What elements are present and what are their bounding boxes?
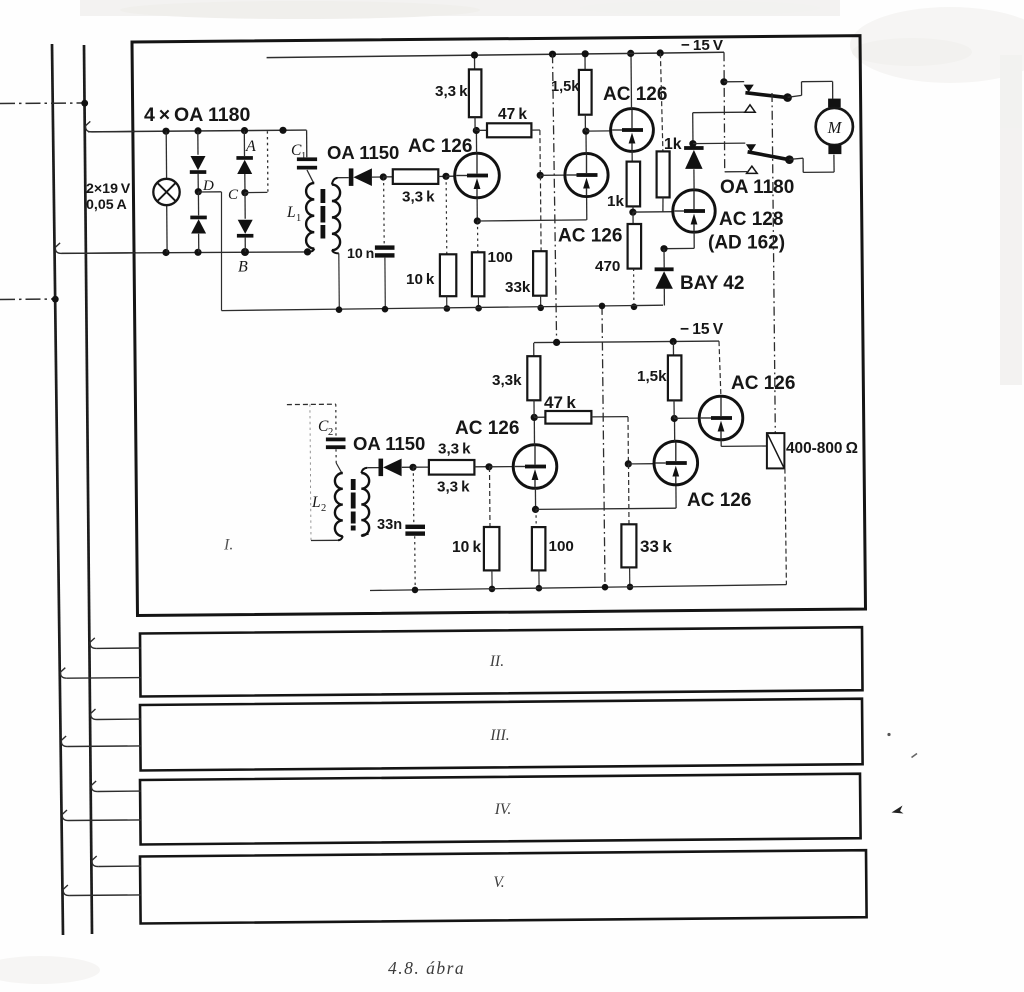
wire switch 1 to motor xyxy=(788,95,802,97)
node dot B-rail lamp xyxy=(162,249,169,256)
svg-text:AC 126: AC 126 xyxy=(731,373,795,394)
node dot T4 collector / 3,3k / 47k xyxy=(531,414,538,421)
wire hook from bus 1 to bridge B-rail xyxy=(55,243,61,254)
svg-text:3,3 k: 3,3 k xyxy=(435,83,468,100)
capacitor 33n link xyxy=(412,468,415,524)
node dot 33k/D-rail xyxy=(537,305,544,312)
wire T4 collector riser xyxy=(533,417,535,444)
node dot T1 base xyxy=(442,173,449,180)
node junction dot bus 2 / stub xyxy=(81,100,88,107)
svg-text:2: 2 xyxy=(328,427,333,438)
wire L1 secondary bottom down to dashed D-rail xyxy=(332,250,339,253)
svg-text:− 15 V: − 15 V xyxy=(681,37,724,54)
switch 1 input contact (triangle) xyxy=(744,85,754,93)
resistor 10k (lower) xyxy=(484,527,500,570)
wire C2 to L2 primary xyxy=(335,449,337,463)
wire T2 emitter riser xyxy=(586,197,588,220)
wire AC128 collector to OA1180 xyxy=(693,169,695,190)
wire bridge top A-rail xyxy=(88,130,307,132)
wire relay to lower rail xyxy=(785,469,787,585)
node dot detector junction (upper) xyxy=(380,173,387,180)
node dot D-rail/10n xyxy=(382,306,389,313)
transformer L1 core xyxy=(321,189,326,203)
wire T1 base down to 10k xyxy=(445,176,448,254)
wire dashed riser C to A-rail xyxy=(266,131,269,192)
wire T4 emitter to 100 (lower) xyxy=(535,510,537,528)
switch 2 open throw (triangle outline) xyxy=(747,166,758,173)
capacitor 10n link from detector node xyxy=(383,177,386,245)
node dot 470/D-rail xyxy=(631,304,638,311)
capacitor 10n xyxy=(375,245,395,249)
wire AC128 base xyxy=(633,211,673,213)
transistor T2 AC 126 xyxy=(565,153,608,196)
resistor 100 (upper) xyxy=(472,252,485,296)
node dot lower rail / 1,5k xyxy=(670,338,677,345)
node dot T2 collector / 1,5k xyxy=(582,128,589,135)
wire 47k to T2 base xyxy=(539,130,541,175)
wire T1 emitter down xyxy=(476,198,478,221)
diode BAY 42 xyxy=(663,249,665,268)
wire 100 to D-rail xyxy=(477,296,479,308)
svg-text:10 n: 10 n xyxy=(347,246,374,262)
node dot A-rail right xyxy=(279,127,286,134)
svg-text:33n: 33n xyxy=(377,517,402,533)
diode OA 1150 (upper) xyxy=(349,168,354,186)
svg-text:OA 1150: OA 1150 xyxy=(353,433,425,454)
resistor 1,5k (lower) xyxy=(672,342,674,356)
svg-text:1k: 1k xyxy=(664,136,682,153)
resistor 3,3k series (lower) xyxy=(413,466,429,468)
svg-text:V.: V. xyxy=(493,874,504,891)
svg-text:AC 126: AC 126 xyxy=(687,490,751,511)
capacitor C2 xyxy=(326,438,346,442)
svg-text:2: 2 xyxy=(321,503,326,514)
wire T1 base xyxy=(446,175,455,177)
node dot AC128 base node xyxy=(629,209,636,216)
wire T5 base lead xyxy=(628,463,654,465)
switch 1 moving arm xyxy=(745,93,787,98)
node dot T5 collector / 1,5k / T6 base xyxy=(671,415,678,422)
svg-text:10 k: 10 k xyxy=(406,271,435,288)
svg-text:33k: 33k xyxy=(505,279,531,296)
wire T2 base down to 33k xyxy=(539,175,542,251)
svg-text:BAY 42: BAY 42 xyxy=(680,273,744,294)
wire T6 emitter to relay xyxy=(720,440,722,447)
wire emitter coupling T1-T2 xyxy=(477,220,586,221)
switch 2 contact xyxy=(785,155,794,164)
svg-text:4 × OA 1180: 4 × OA 1180 xyxy=(144,104,250,126)
svg-text:33 k: 33 k xyxy=(640,537,672,556)
svg-text:47 k: 47 k xyxy=(544,393,576,412)
switch 2 input contact (triangle) xyxy=(746,144,756,152)
wire hook bus1 to box III xyxy=(61,736,67,747)
node dot T5 base xyxy=(625,460,632,467)
node dot lower rail / feed xyxy=(553,339,560,346)
wire dash-dot stub to bus 1 xyxy=(0,298,55,301)
wire tank left side xyxy=(310,404,311,540)
wire D-rail (upper dashed ground rail) xyxy=(222,305,664,310)
wire L2 primary bottom to tank bottom xyxy=(338,536,343,540)
wire -15V top rail xyxy=(267,52,724,57)
wire A-rail corner down to C1 xyxy=(306,130,308,157)
capacitor C2 tank top link xyxy=(287,403,336,405)
svg-text:B: B xyxy=(238,259,248,276)
switch 2 moving arm xyxy=(748,152,790,160)
svg-text:1k: 1k xyxy=(607,193,624,210)
resistor 33k (lower) xyxy=(621,524,636,567)
wire -15V feed link to lower oscillator xyxy=(553,54,557,342)
wire switch 1 feed xyxy=(724,81,744,83)
wire tank bottom xyxy=(311,539,338,541)
diode bridge D3 (OA 1180, column A top) xyxy=(243,131,245,156)
svg-text:M: M xyxy=(827,118,843,137)
wire 100 to lower rail xyxy=(538,570,540,588)
svg-text:1: 1 xyxy=(296,213,301,224)
svg-text:4.8. ábra: 4.8. ábra xyxy=(388,958,465,978)
node dot A-rail diode column A xyxy=(241,127,248,134)
node dot T1 collector / 3,3k / 47k xyxy=(473,127,480,134)
svg-text:C: C xyxy=(228,187,239,203)
node dot -15V/feed link xyxy=(549,51,556,58)
capacitor C1 xyxy=(297,157,317,161)
inductor L2 primary winding xyxy=(335,473,343,536)
svg-text:− 15 V: − 15 V xyxy=(680,321,724,338)
wire T6 base lead xyxy=(674,417,699,419)
diode OA 1180 (output) xyxy=(684,146,704,150)
wire T5 base to 33k (lower) xyxy=(628,464,631,524)
svg-text:3,3 k: 3,3 k xyxy=(438,441,471,458)
node dot B-rail node B xyxy=(241,248,249,256)
wire L1 secondary top to detector diode xyxy=(332,178,338,185)
node dot T3 collector on -15V rail xyxy=(627,50,634,57)
enclosure box II xyxy=(140,627,863,696)
svg-text:OA 1150: OA 1150 xyxy=(327,142,399,163)
node dot 100/lower rail xyxy=(536,585,543,592)
svg-text:AC 126: AC 126 xyxy=(455,418,519,439)
wire -15V rail corner down xyxy=(723,52,726,172)
wire relay actuation linkage xyxy=(772,93,775,433)
svg-text:470: 470 xyxy=(595,258,620,275)
svg-text:A: A xyxy=(245,138,256,155)
wire hook bus2 to box II xyxy=(90,638,96,649)
svg-text:L: L xyxy=(286,204,296,221)
node dot 10k/D-rail xyxy=(444,305,451,312)
wire L1 primary bottom to B-rail xyxy=(308,249,315,252)
resistor 47k (lower) xyxy=(534,416,545,418)
wire hook bus1 to box II xyxy=(61,668,67,679)
wire diode to junction xyxy=(372,176,383,178)
wire T2 base lead xyxy=(540,174,565,176)
node dot -15V corner / switch 1 feed xyxy=(720,78,727,85)
wire T5 emitter riser xyxy=(675,485,677,509)
transistor T6 AC 126 xyxy=(699,396,743,440)
resistor 470 xyxy=(632,212,634,224)
wire C2 riser xyxy=(335,404,337,437)
wire T4 base lead xyxy=(489,466,513,468)
switch 1 open throw (triangle outline) xyxy=(745,105,755,112)
wire L2 secondary top to diode xyxy=(361,468,367,473)
wire T6 collector from lower rail corner xyxy=(719,341,721,396)
wire hook bus2 to box III xyxy=(91,709,97,720)
node dot OA1180 / switch-2 feed xyxy=(689,140,696,147)
wire diode to junction (lower) xyxy=(402,466,413,468)
wire 33n to lower rail xyxy=(414,536,417,589)
node dot -15V/1,5k xyxy=(582,50,589,57)
svg-text:100: 100 xyxy=(549,538,574,555)
node dot T1 emitter xyxy=(474,217,481,224)
wire C1 to L1 primary xyxy=(307,170,313,183)
node dot A-rail diode column D xyxy=(194,127,201,134)
node dot D-rail/link xyxy=(599,303,606,310)
resistor 10k (upper) xyxy=(440,254,456,296)
wire 10k to lower rail xyxy=(491,570,493,589)
relay coil 400-800 ohm xyxy=(767,433,785,468)
node dot link/lower rail xyxy=(602,584,609,591)
svg-text:OA 1180: OA 1180 xyxy=(720,177,794,198)
wire OA1180 up to switch 1 throw xyxy=(692,113,694,146)
inductor L2 secondary winding xyxy=(361,473,369,536)
wire node C to dashed riser xyxy=(245,191,268,193)
wire 10k to D-rail xyxy=(446,296,448,308)
svg-text:1,5k: 1,5k xyxy=(637,368,667,385)
svg-text:IV.: IV. xyxy=(494,801,512,818)
node dot T4 base xyxy=(485,463,492,470)
wire L2 secondary bottom tail xyxy=(361,534,368,536)
svg-text:100: 100 xyxy=(488,249,513,266)
resistor 3,3k collector load (lower) xyxy=(533,343,535,356)
wire T4 base to 10k (lower) xyxy=(489,467,492,527)
node dot 100/D-rail xyxy=(475,305,482,312)
node dot T4 emitter xyxy=(532,506,539,513)
wire switch 2 to motor xyxy=(789,158,803,159)
inductor L1 secondary winding xyxy=(332,185,340,251)
artifact speck 1 xyxy=(887,733,890,736)
svg-text:1,5k: 1,5k xyxy=(551,79,580,95)
artifact arrow mark right margin xyxy=(892,806,904,814)
diode bridge D1 (OA 1180, column D top) xyxy=(197,131,199,155)
wire to switch 1 open contact xyxy=(693,111,745,114)
svg-text:III.: III. xyxy=(489,727,509,744)
wire T3 emitter to 1k xyxy=(631,151,633,162)
wire hook from bus 2 to bridge A-rail xyxy=(86,121,92,131)
resistor 1,5k (upper) xyxy=(584,54,586,70)
wire hook bus1 to box V xyxy=(63,885,69,896)
wire -15V lower rail xyxy=(534,341,719,343)
wire AC128 emitter xyxy=(693,232,695,248)
resistor 3,3k series (upper) xyxy=(383,176,393,178)
wire 1k to AC128 base node xyxy=(632,206,634,212)
node dot D-rail/L1 secondary xyxy=(336,306,343,313)
capacitor 33n xyxy=(405,525,425,529)
wire hook bus2 to box IV xyxy=(91,781,97,792)
wire D-rail to lower-circuit link xyxy=(602,306,605,587)
wire 33k to lower rail xyxy=(629,567,631,587)
svg-text:3,3 k: 3,3 k xyxy=(402,189,435,206)
svg-text:L: L xyxy=(311,494,321,511)
node dot B-rail L1 primary xyxy=(304,248,311,255)
svg-text:400-800 Ω: 400-800 Ω xyxy=(786,440,858,457)
node dot B-rail diode column D xyxy=(194,249,201,256)
wire left supply bus 1 xyxy=(52,44,63,935)
wire T1 emitter to 100 xyxy=(477,221,479,252)
diode OA 1150 (lower) xyxy=(379,459,384,477)
resistor 33k (upper) xyxy=(533,251,547,296)
node dot -15V/3,3k xyxy=(471,52,478,59)
transistor T1 AC 126 xyxy=(455,153,500,198)
svg-text:2×19 V: 2×19 V xyxy=(86,181,131,197)
svg-text:II.: II. xyxy=(489,653,504,670)
svg-text:1: 1 xyxy=(301,151,306,162)
wire -15V to switch 2 open throw xyxy=(725,171,747,173)
resistor 3,3k collector load (upper) xyxy=(474,55,476,69)
transistor T7 AC 128 (AD 162) xyxy=(673,190,715,232)
node C xyxy=(241,189,248,196)
wire T3 base lead xyxy=(586,130,611,132)
svg-text:AC 126: AC 126 xyxy=(558,226,622,247)
wire T4 emitter down xyxy=(534,488,536,509)
wire switch-2 feed xyxy=(693,142,745,145)
node dot detector junction (lower) xyxy=(409,464,416,471)
enclosure box IV xyxy=(140,774,861,845)
node dot -15V/1k right xyxy=(657,49,664,56)
artifact speck 2 xyxy=(912,754,918,758)
wire dash-dot stub to bus 2 xyxy=(0,102,85,105)
wire T3 collector riser xyxy=(630,53,633,109)
svg-text:AC 126: AC 126 xyxy=(408,136,472,157)
diode bridge D4 (OA 1180, column A bottom) xyxy=(244,193,246,219)
enclosure box V xyxy=(140,850,867,923)
transistor T4 AC 126 xyxy=(513,445,557,489)
wire lower ground rail xyxy=(370,585,786,591)
lamp indicator 2x19V xyxy=(165,131,167,179)
transistor T5 AC 126 xyxy=(654,441,698,485)
svg-text:47 k: 47 k xyxy=(498,106,527,123)
inductor L1 primary winding xyxy=(306,183,314,249)
svg-text:10 k: 10 k xyxy=(452,539,481,556)
wire 10n to D-rail xyxy=(384,258,386,309)
enclosure box I xyxy=(132,36,866,616)
node dot 10k/lower rail xyxy=(489,586,496,593)
node dot T2 base xyxy=(537,172,544,179)
wire 33k to D-rail xyxy=(540,296,542,308)
wire T5 collector riser xyxy=(674,419,676,442)
resistor 1k (T3 emitter) xyxy=(627,162,641,207)
diode bridge D2 (OA 1180, column D bottom) xyxy=(197,192,199,216)
resistor 1k (right) xyxy=(660,53,663,151)
wire T1 collector riser xyxy=(475,131,477,154)
wire left supply bus 2 xyxy=(84,45,92,934)
wire bridge bottom B-rail xyxy=(62,252,311,253)
svg-text:3,3 k: 3,3 k xyxy=(437,479,470,496)
wire 47k to T5 base xyxy=(627,417,629,464)
wire emitter coupling T4-T5 xyxy=(536,508,676,509)
motor M xyxy=(828,99,841,108)
node dot emitter/BAY42 xyxy=(660,245,667,252)
node dot 33k/lower rail xyxy=(627,584,634,591)
wire hook bus2 to box V xyxy=(92,856,98,867)
node junction dot bus 1 / stub xyxy=(52,296,59,303)
node dot 33n/lower rail xyxy=(412,587,419,594)
resistor 47k (upper) xyxy=(476,129,487,131)
svg-text:I.: I. xyxy=(223,537,233,554)
wire D node to D-rail corner xyxy=(198,191,221,193)
transformer L2 core xyxy=(351,479,356,490)
svg-text:AC 126: AC 126 xyxy=(603,84,667,105)
node D xyxy=(195,188,202,195)
svg-text:0,05 A: 0,05 A xyxy=(86,197,127,213)
switch 1 contact xyxy=(783,93,792,102)
transistor T3 AC 126 xyxy=(611,109,654,152)
enclosure box III xyxy=(140,699,863,771)
wire hook bus1 to box IV xyxy=(62,810,68,821)
node dot A-rail lamp xyxy=(162,128,169,135)
wire T2 collector riser xyxy=(585,131,587,153)
svg-text:3,3k: 3,3k xyxy=(492,372,522,389)
resistor 100 (lower) xyxy=(532,527,546,570)
